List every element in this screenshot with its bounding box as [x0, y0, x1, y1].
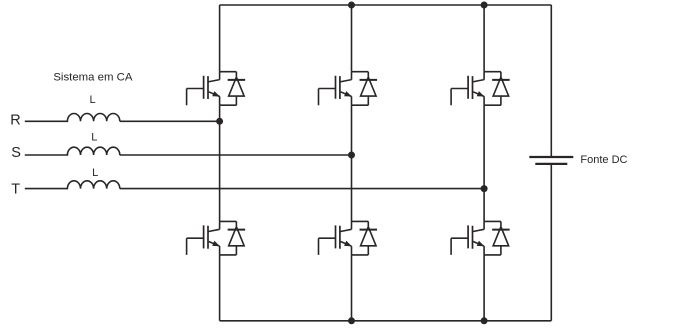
- svg-text:L: L: [92, 167, 98, 179]
- svg-text:Sistema em CA: Sistema em CA: [53, 71, 133, 83]
- svg-text:R: R: [10, 112, 20, 128]
- svg-text:Fonte DC: Fonte DC: [580, 154, 627, 166]
- svg-text:T: T: [11, 182, 20, 198]
- svg-text:S: S: [11, 145, 21, 161]
- svg-text:L: L: [89, 94, 95, 106]
- svg-text:L: L: [91, 132, 97, 144]
